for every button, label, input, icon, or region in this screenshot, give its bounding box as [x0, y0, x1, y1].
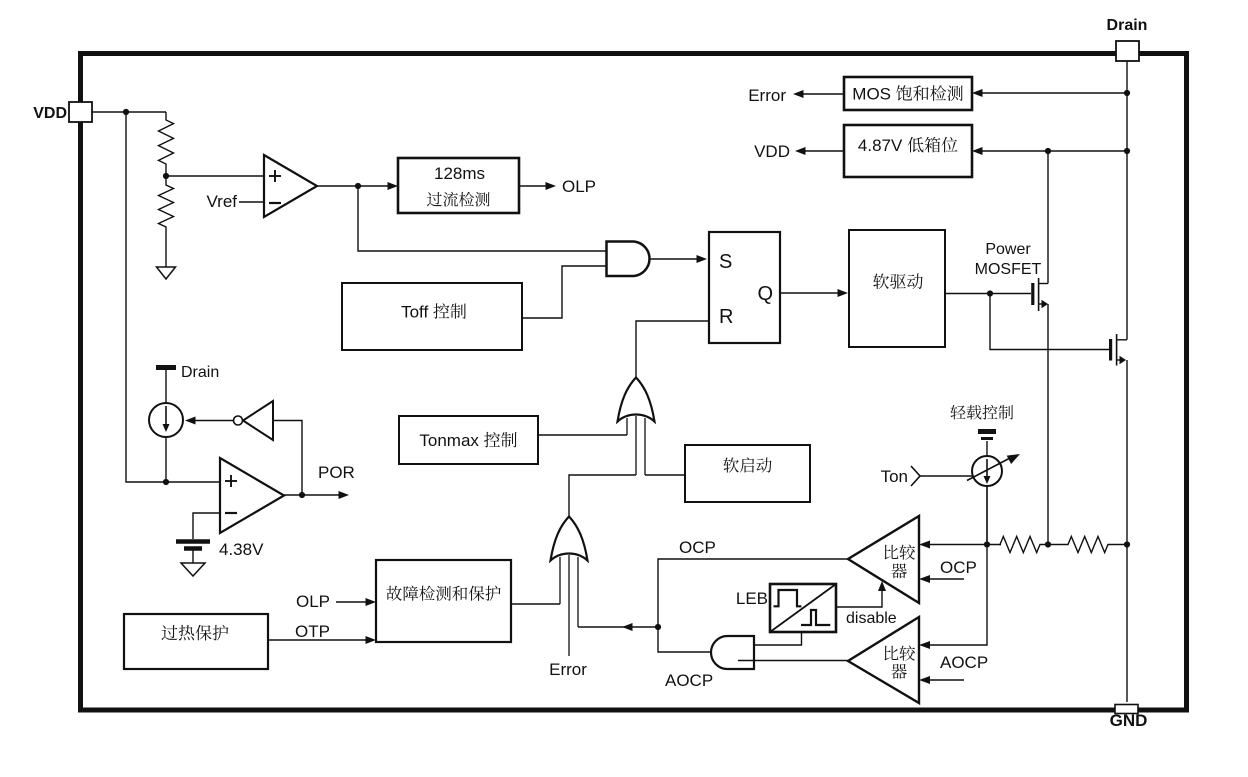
wire A1 output to latch S input [650, 258, 700, 260]
supply bar (light load) [978, 432, 996, 439]
wire Ton to I2 [920, 475, 973, 477]
svg-text:VDD: VDD [754, 142, 790, 161]
wire OCP/AOCP node to O2 input [578, 626, 658, 628]
block fault detect & protect [376, 560, 511, 642]
svg-text:OTP: OTP [295, 622, 330, 641]
block MOS saturation detect [844, 77, 972, 110]
wire M2 source down to GND pin [1126, 360, 1128, 702]
svg-text:Toff: Toff [401, 303, 428, 322]
svg-text:Drain: Drain [181, 364, 219, 381]
wire LEB disable to C1 [836, 588, 882, 607]
transistor M1 (power MOSFET) [1033, 278, 1048, 311]
wire drain line to 4.87V clamp [980, 150, 1127, 152]
current source I1 (startup) [149, 403, 183, 437]
pin GND [1115, 705, 1138, 714]
wire OCP input to C1 [927, 578, 964, 580]
svg-text:POR: POR [318, 463, 355, 482]
comparator C2 [848, 617, 919, 703]
wire M1 source down to sense resistors [1047, 304, 1049, 545]
junction VDD node [123, 109, 129, 115]
wire bar to current source I1 [165, 370, 167, 403]
wire AND A2 output loop [658, 627, 711, 652]
block 128ms over-current detect [398, 158, 519, 213]
wire 4.87V clamp to VDD [803, 150, 844, 152]
wire C1 input across sense resistors [927, 544, 1001, 546]
wire comparator C1 output loop [658, 559, 848, 627]
ground (divider) [157, 267, 176, 279]
svg-text:GND: GND [1110, 711, 1148, 730]
reference 4.38V battery [176, 542, 210, 549]
junction sense node [984, 541, 990, 547]
junction protect node [655, 624, 661, 630]
resistor R2 (lower divider) [159, 176, 174, 267]
wire VDD pin to divider [92, 111, 166, 113]
Ton input chevron [911, 466, 920, 486]
wire Tonmax to O1 input [538, 434, 627, 436]
junction I1 output on + input wire [163, 479, 169, 485]
junction clamp to M1 drain [1045, 148, 1051, 154]
block LEB [770, 584, 836, 632]
OR gate O2 [551, 517, 588, 657]
svg-text:MOSFET: MOSFET [975, 261, 1042, 278]
junction M1 source node [1045, 541, 1051, 547]
AND gate A1 [607, 242, 650, 277]
SR latch U3 [709, 232, 780, 343]
wire bar to current source I2 [986, 441, 988, 456]
supply bar (internal drain) [156, 365, 176, 370]
svg-text:4.87V: 4.87V [858, 136, 903, 155]
wire Toff control to AND gate A1 [522, 266, 608, 318]
svg-text:disable: disable [846, 610, 897, 627]
svg-text:OLP: OLP [562, 177, 596, 196]
wire O2 output to O1 input [569, 475, 636, 517]
wire soft-drive to MOSFET gates [945, 293, 1031, 295]
block over-temperature protect [124, 614, 268, 669]
svg-text:Q: Q [757, 283, 773, 305]
wire AOCP input to C2 [927, 679, 964, 681]
wire inverter output to I1 control [192, 420, 234, 422]
AND gate A2 (points left) [711, 636, 754, 669]
svg-text:Ton: Ton [881, 467, 908, 486]
wire OR1 output to latch R input [636, 321, 709, 378]
wire sense node to C1 input [919, 541, 930, 549]
svg-text:S: S [719, 251, 732, 273]
resistor R1 (upper divider) [159, 112, 174, 176]
wire MOS sat detect to Error [801, 93, 844, 95]
svg-text:Power: Power [985, 241, 1031, 258]
IC outer boundary [81, 54, 1187, 711]
svg-text:Vref: Vref [206, 192, 237, 211]
op-amp U1 (VDD comparator) [264, 155, 317, 217]
wire OTP to fault block [268, 639, 368, 641]
inverter U4 [234, 401, 274, 440]
wire sense node to C2 input [927, 487, 987, 645]
block Tonmax control [399, 416, 538, 464]
svg-text:OLP: OLP [296, 592, 330, 611]
block Toff control [342, 283, 522, 350]
junction drain line to MOS sat detect [1124, 90, 1130, 96]
block soft start [685, 445, 810, 502]
comparator C1 [848, 516, 919, 603]
wire OLP to fault block [336, 601, 368, 603]
wire latch Q to soft-drive block [780, 292, 840, 294]
wire U1 output to 128ms box [317, 185, 390, 187]
wire C2 output to A2 input [738, 660, 848, 662]
OR gate O1 [618, 378, 655, 476]
svg-text:Error: Error [748, 86, 786, 105]
label light-load control [950, 405, 1013, 420]
op-amp U2 (POR comparator) [220, 458, 284, 533]
svg-text:128ms: 128ms [434, 164, 485, 183]
svg-text:AOCP: AOCP [940, 653, 988, 672]
wire I1 to VDD rail node [165, 437, 167, 482]
svg-text:LEB: LEB [736, 589, 768, 608]
wire VDD rail down to POR comparator [126, 112, 220, 482]
wire 128ms to OLP [519, 185, 548, 187]
svg-text:MOS: MOS [852, 85, 891, 104]
wire M1 drain up to 4.87V clamp line [1047, 151, 1049, 284]
wire U2 - input to 4.38V reference [193, 513, 220, 539]
wire LEB to A2 input [754, 632, 802, 645]
wire inverter input from POR node [273, 421, 302, 496]
current source I2 (variable) [967, 454, 1020, 486]
svg-text:4.38V: 4.38V [219, 540, 264, 559]
junction M2 source node [1124, 541, 1130, 547]
svg-text:Drain: Drain [1107, 17, 1148, 34]
pin VDD [69, 102, 92, 122]
wire Drain pin down to M2 drain [1126, 61, 1128, 340]
resistor R4 (sense) [1048, 537, 1127, 553]
block 4.87V low clamp [844, 125, 972, 177]
wire U2 output POR [284, 494, 341, 496]
junction U1 output [355, 183, 361, 189]
block soft drive [849, 230, 945, 347]
ground (4.38V ref) [181, 563, 205, 576]
junction drain line to clamp [1124, 148, 1130, 154]
svg-text:Tonmax: Tonmax [419, 431, 479, 450]
wire Vref to U1 - input [239, 201, 264, 203]
svg-text:Error: Error [549, 660, 587, 679]
svg-text:R: R [719, 306, 733, 328]
wire fault block to O2 input [511, 603, 560, 605]
wire U1 output down to AND gate A1 [358, 186, 608, 251]
transistor M2 (sense MOSFET) [1111, 334, 1127, 366]
resistor R3 (sense) [1000, 537, 1048, 553]
junction gate node [987, 290, 993, 296]
svg-text:OCP: OCP [940, 558, 977, 577]
junction POR/inverter node [299, 492, 305, 498]
wire gate node down to M2 gate [990, 294, 1109, 350]
svg-text:AOCP: AOCP [665, 671, 713, 690]
junction divider midpoint [163, 173, 169, 179]
wire I2 down to sense node [986, 486, 988, 545]
wire battery to ground [192, 550, 194, 563]
wire divider tap to comparator U1 + input [166, 175, 264, 177]
wire drain line to MOS saturation detect [980, 92, 1127, 94]
svg-text:VDD: VDD [33, 105, 67, 122]
wire soft start to O1 input [645, 474, 685, 476]
svg-text:OCP: OCP [679, 538, 716, 557]
